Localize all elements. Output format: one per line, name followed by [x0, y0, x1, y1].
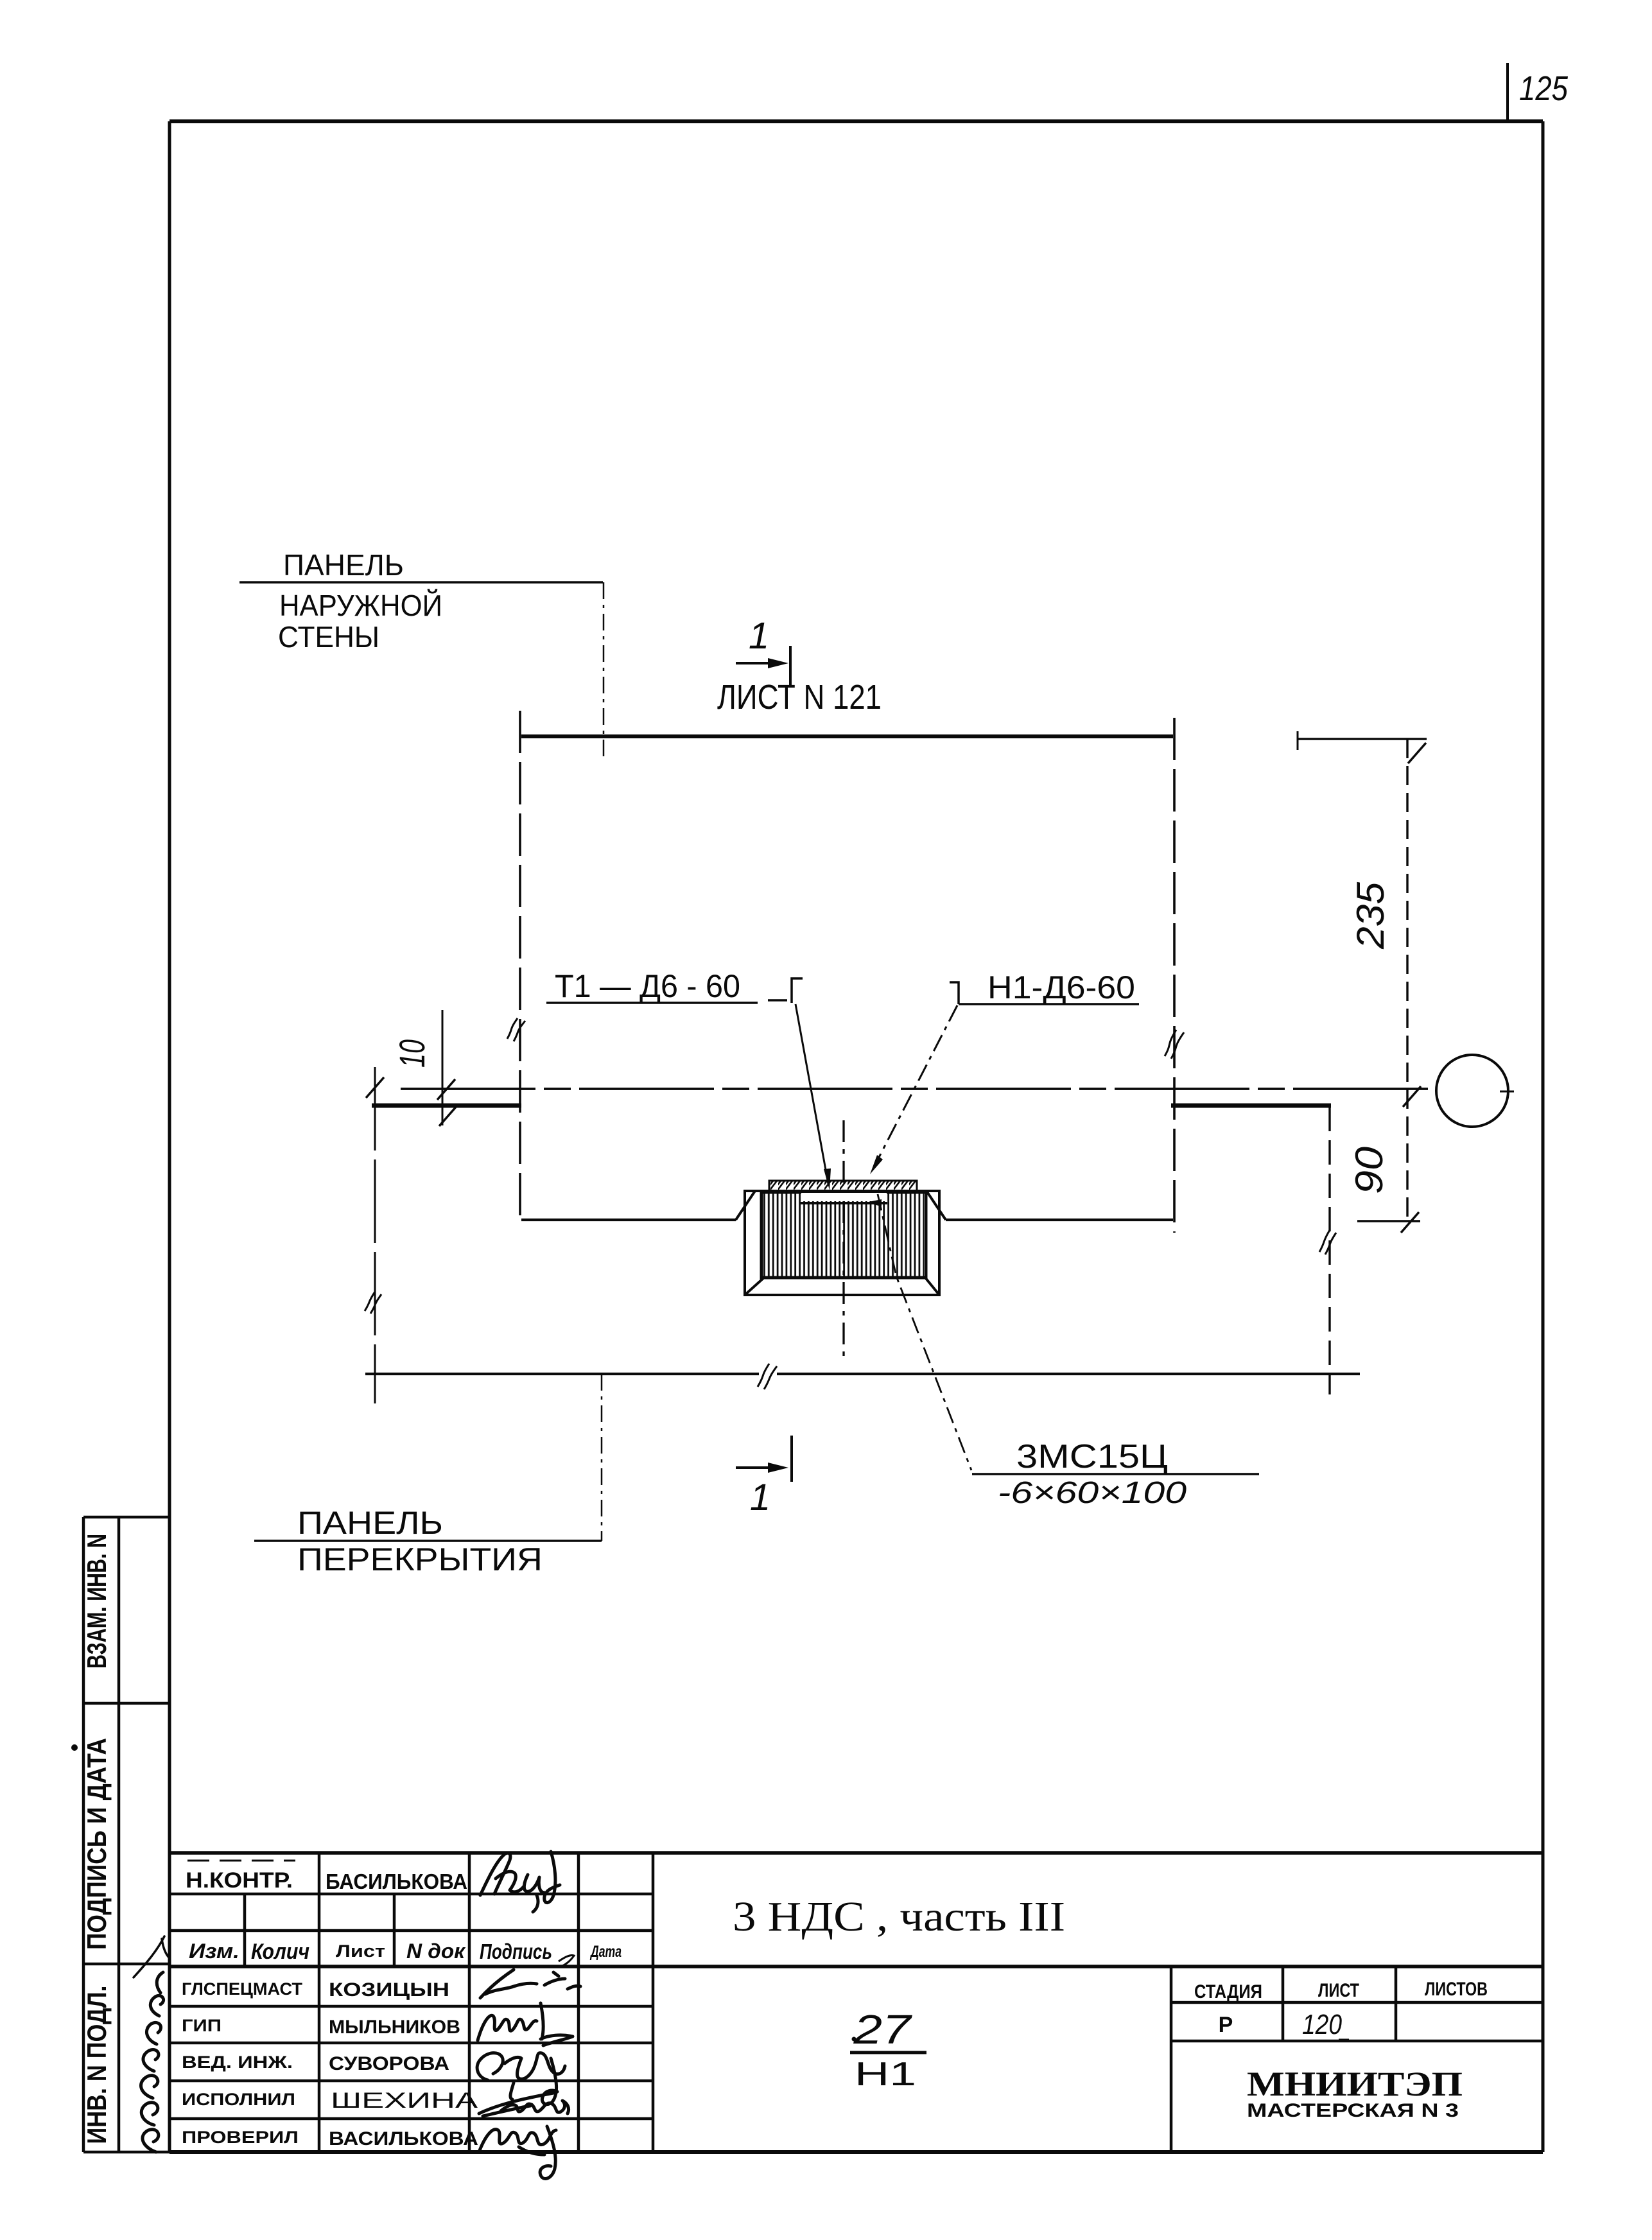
svg-text:235: 235: [1349, 881, 1392, 950]
svg-text:ШЕХИНА: ШЕХИНА: [331, 2088, 478, 2113]
svg-text:N док: N док: [406, 1940, 466, 1963]
svg-text:Подпись: Подпись: [480, 1940, 552, 1963]
svg-text:3МС15Ц: 3МС15Ц: [1016, 1438, 1168, 1475]
svg-text:ИНВ. N ПОДЛ.: ИНВ. N ПОДЛ.: [82, 1986, 112, 2144]
svg-text:Р: Р: [1219, 2013, 1233, 2037]
svg-text:ПАНЕЛЬ: ПАНЕЛЬ: [283, 548, 404, 582]
svg-text:ПОДПИСЬ И ДАТА: ПОДПИСЬ И ДАТА: [82, 1738, 112, 1950]
svg-text:Н.КОНТР.: Н.КОНТР.: [186, 1868, 293, 1893]
svg-text:ГИП: ГИП: [182, 2016, 222, 2035]
svg-text:МЫЛЬНИКОВ: МЫЛЬНИКОВ: [329, 2017, 460, 2038]
svg-text:Лист: Лист: [336, 1941, 385, 1961]
svg-text:ВЕД. ИНЖ.: ВЕД. ИНЖ.: [182, 2053, 293, 2072]
svg-text:90: 90: [1348, 1147, 1391, 1194]
svg-text:СУВОРОВА: СУВОРОВА: [329, 2053, 449, 2074]
svg-text:НАРУЖНОЙ: НАРУЖНОЙ: [279, 589, 442, 622]
svg-text:БАСИЛЬКОВА: БАСИЛЬКОВА: [326, 1870, 467, 1893]
svg-text:ПЕРЕКРЫТИЯ: ПЕРЕКРЫТИЯ: [297, 1541, 543, 1577]
svg-text:ЛИСТ: ЛИСТ: [1318, 1980, 1359, 2001]
svg-text:СТЕНЫ: СТЕНЫ: [278, 620, 379, 654]
svg-text:ГЛСПЕЦМАСТ: ГЛСПЕЦМАСТ: [182, 1979, 303, 1999]
svg-text:Изм.: Изм.: [189, 1940, 239, 1963]
svg-text:10: 10: [392, 1039, 432, 1068]
svg-text:ЛИСТОВ: ЛИСТОВ: [1425, 1979, 1488, 2000]
svg-text:27: 27: [853, 2006, 912, 2053]
svg-text:Колич: Колич: [251, 1940, 309, 1964]
svg-text:Дата: Дата: [590, 1943, 622, 1961]
svg-text:МНИИТЭП: МНИИТЭП: [1247, 2065, 1463, 2103]
svg-text:ВАСИЛЬКОВА: ВАСИЛЬКОВА: [329, 2128, 478, 2149]
svg-text:120: 120: [1302, 2009, 1342, 2040]
svg-text:1: 1: [750, 1477, 770, 1518]
svg-text:ПРОВЕРИЛ: ПРОВЕРИЛ: [182, 2128, 299, 2147]
svg-text:125: 125: [1519, 69, 1569, 108]
svg-text:Т1 — Д6 - 60: Т1 — Д6 - 60: [555, 968, 740, 1004]
svg-text:3 НДС , часть III: 3 НДС , часть III: [733, 1893, 1065, 1940]
svg-text:СТАДИЯ: СТАДИЯ: [1194, 1981, 1262, 2002]
svg-text:ЛИСТ N 121: ЛИСТ N 121: [717, 678, 882, 716]
svg-text:ПАНЕЛЬ: ПАНЕЛЬ: [297, 1505, 443, 1541]
svg-text:ИСПОЛНИЛ: ИСПОЛНИЛ: [182, 2090, 295, 2109]
svg-text:МАСТЕРСКАЯ N 3: МАСТЕРСКАЯ N 3: [1247, 2100, 1459, 2121]
svg-text:-6×60×100: -6×60×100: [998, 1476, 1187, 1510]
svg-text:КОЗИЦЫН: КОЗИЦЫН: [329, 1979, 449, 2001]
svg-text:ВЗАМ. ИНВ. N: ВЗАМ. ИНВ. N: [82, 1534, 112, 1669]
svg-text:Н1: Н1: [855, 2056, 916, 2093]
svg-text:1: 1: [749, 615, 769, 657]
svg-text:Н1-Д6-60: Н1-Д6-60: [987, 969, 1135, 1005]
